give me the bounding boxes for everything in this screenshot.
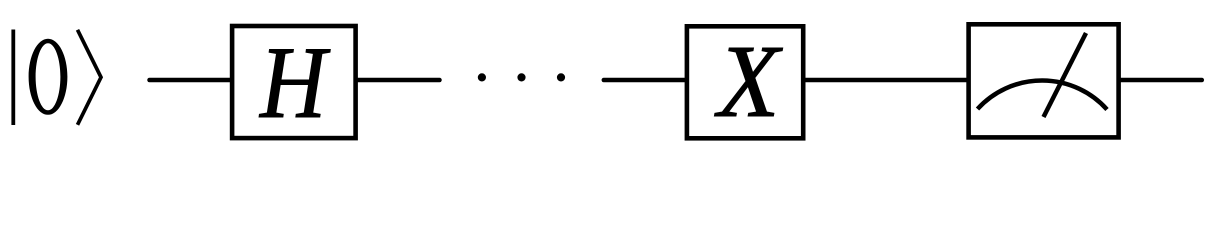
- gate label X: [714, 25, 784, 140]
- wire segment 1 (input to H gate): [150, 78, 232, 83]
- gate label H: [258, 26, 330, 140]
- wire segment 3 (dots to X gate): [604, 78, 686, 83]
- gate box H: [232, 26, 356, 138]
- meter arc: [978, 81, 1108, 110]
- svg-text:X: X: [714, 25, 784, 140]
- svg-text:H: H: [258, 26, 330, 140]
- ket digit 0: [29, 39, 68, 115]
- gate box X: [687, 26, 803, 138]
- ellipsis dot 3: [557, 73, 565, 81]
- ellipsis dot 2: [517, 73, 525, 81]
- ket angle bracket >: [78, 30, 102, 125]
- meter needle: [1044, 33, 1087, 117]
- wire segment 4 (X gate to meter): [804, 78, 968, 83]
- ket bar | of |0>: [11, 30, 15, 126]
- wire segment 2 (H gate to dots): [356, 78, 440, 83]
- measurement box: [969, 24, 1119, 137]
- wire segment 5 (meter output): [1120, 78, 1202, 83]
- ellipsis dot 1: [478, 73, 486, 81]
